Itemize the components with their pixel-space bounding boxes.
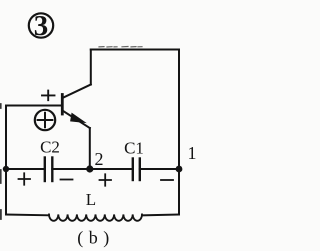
svg-text:2: 2: [95, 149, 104, 169]
wire: C1 to right rail: [140, 168, 179, 170]
polarity - left of right rail: [161, 179, 173, 181]
polarity + above base: [42, 91, 55, 101]
wire: bottom rail left segment: [6, 214, 49, 217]
circled number 3: [29, 10, 53, 42]
svg-text:3: 3: [34, 10, 49, 42]
wire: bottom rail right segment: [142, 214, 179, 217]
wire: collector vertical up to top rail: [90, 50, 92, 85]
scan noise left edge: [0, 104, 2, 219]
scan noise specks top rail: [99, 46, 142, 49]
polarity + left of C2: [19, 173, 31, 184]
capacitor C1: [133, 159, 140, 181]
node 1 junction dot: [176, 166, 183, 173]
svg-text:1: 1: [188, 143, 197, 163]
wire: left rail: [5, 106, 7, 215]
junction dot on left rail: [3, 166, 9, 172]
node 2 junction dot: [86, 165, 93, 172]
phase mark circled plus: [35, 110, 55, 130]
wire: node2 to C1: [52, 168, 133, 170]
transistor Q1: [62, 85, 91, 129]
polarity - right of C2: [61, 179, 73, 181]
wire: top rail: [91, 49, 179, 51]
svg-text:L: L: [86, 190, 96, 209]
capacitor C2: [45, 158, 53, 182]
wire: right rail: [178, 50, 180, 215]
svg-text:C1: C1: [124, 139, 144, 158]
wire: base wire: [6, 105, 62, 107]
polarity + right of node 2: [100, 174, 112, 185]
svg-text:C2: C2: [40, 138, 60, 157]
wire: C2 row left: [6, 168, 45, 170]
svg-text:(b): (b): [77, 228, 115, 249]
inductor L: [49, 214, 142, 220]
wire: emitter vertical down to node 2: [89, 128, 91, 169]
